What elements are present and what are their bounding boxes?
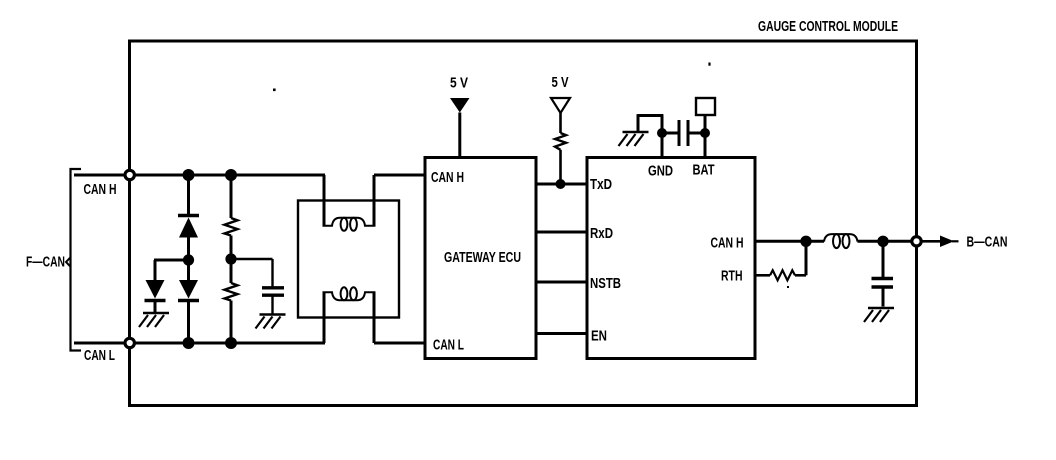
svg-text:CAN H: CAN H — [431, 170, 464, 186]
svg-text:BAT: BAT — [693, 163, 715, 179]
svg-text:5 V: 5 V — [552, 75, 569, 91]
svg-text:EN: EN — [591, 329, 607, 345]
svg-text:B—CAN: B—CAN — [967, 235, 1008, 251]
svg-text:GAUGE CONTROL MODULE: GAUGE CONTROL MODULE — [758, 19, 898, 35]
svg-text:TxD: TxD — [590, 177, 612, 193]
svg-text:CAN L: CAN L — [84, 348, 115, 364]
svg-text:5 V: 5 V — [450, 76, 468, 92]
svg-text:CAN L: CAN L — [433, 338, 464, 354]
svg-text:RxD: RxD — [590, 226, 613, 242]
svg-text:NSTB: NSTB — [590, 276, 621, 292]
svg-text:RTH: RTH — [721, 269, 743, 285]
svg-text:F—CAN: F—CAN — [26, 255, 65, 271]
svg-text:GATEWAY ECU: GATEWAY ECU — [444, 250, 521, 266]
svg-text:CAN H: CAN H — [711, 236, 744, 252]
svg-text:CAN H: CAN H — [84, 182, 117, 198]
svg-text:GND: GND — [648, 164, 673, 180]
